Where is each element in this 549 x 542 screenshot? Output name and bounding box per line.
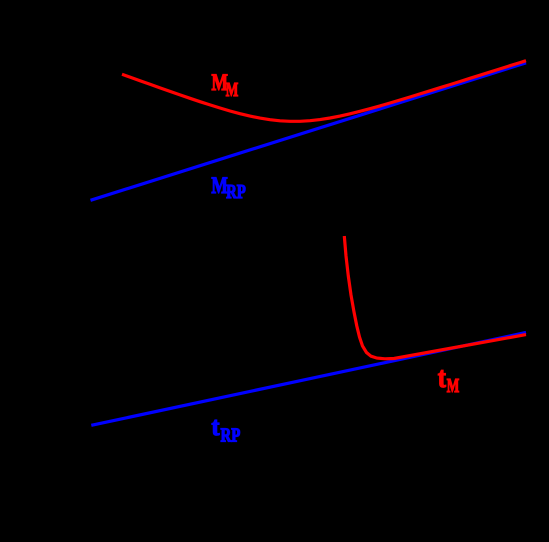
curve t_RP (blue straight line, bottom panel) <box>91 333 526 426</box>
svg-text:RP: RP <box>221 425 241 446</box>
svg-text:RP: RP <box>226 182 246 203</box>
curve M_RP (blue straight line, top panel) <box>91 63 527 201</box>
label t_RP (blue) <box>212 412 241 446</box>
label M_RP (blue) <box>211 173 245 203</box>
svg-text:M: M <box>226 80 239 101</box>
curve M_M (red curve, top panel) <box>122 61 526 122</box>
svg-text:M: M <box>447 376 460 397</box>
curve t_M (red curve, bottom panel) <box>344 236 526 359</box>
label t_M (red) <box>438 362 460 397</box>
svg-text:t: t <box>212 412 220 441</box>
svg-text:t: t <box>438 362 446 394</box>
label M_M (red) <box>212 70 239 101</box>
